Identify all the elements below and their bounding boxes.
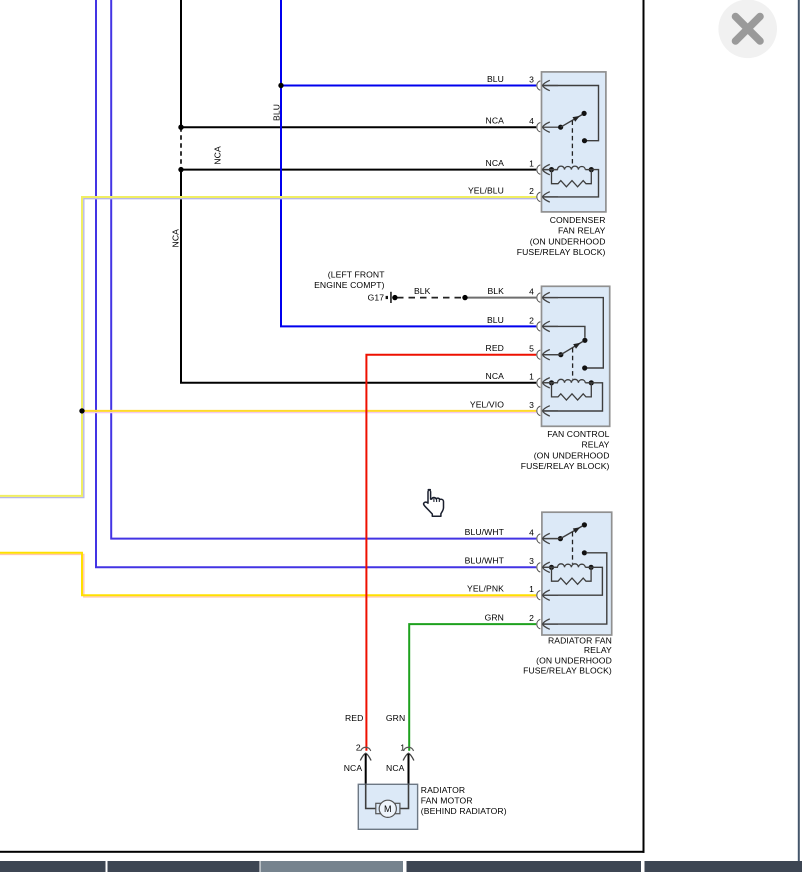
node BLK dash end — [462, 295, 467, 300]
svg-text:BLU/WHT: BLU/WHT — [465, 556, 505, 566]
svg-text:YEL/PNK: YEL/PNK — [467, 584, 504, 594]
radiator relay coil L — [543, 564, 594, 570]
wire NCA main vertical trunk — [180, 0, 182, 127]
wire BLU vertical trunk — [281, 0, 536, 326]
pin 3 connector radiator relay — [537, 562, 558, 572]
label YEL/VIO / pin 3 — [470, 399, 534, 410]
svg-text:NCA: NCA — [212, 146, 222, 165]
svg-text:RADIATOR: RADIATOR — [421, 785, 465, 795]
pin 4 connector fan control relay — [537, 292, 558, 302]
motor pin 2 connector — [360, 747, 371, 768]
condenser fan relay name label — [517, 215, 606, 257]
fan control relay U2 box — [542, 286, 610, 426]
radiator relay NC contact wire to pin 2 — [543, 550, 607, 624]
svg-text:GRN: GRN — [485, 613, 504, 623]
svg-text:3: 3 — [529, 74, 534, 84]
condenser relay pin 2 internal wire — [543, 170, 599, 197]
svg-text:NCA: NCA — [171, 229, 181, 248]
pin 3 connector condenser relay — [537, 80, 558, 90]
svg-text:2: 2 — [356, 742, 361, 752]
svg-text:3: 3 — [529, 556, 534, 566]
condenser relay switch — [558, 111, 587, 130]
svg-text:3: 3 — [529, 400, 534, 410]
motor pin 1 connector — [403, 747, 414, 768]
svg-text:GRN: GRN — [386, 713, 405, 723]
wire YEL/BLU to condenser fan relay pin 2 — [0, 197, 536, 496]
node BLK at ground — [392, 295, 397, 300]
pin 2 connector condenser relay — [537, 192, 558, 202]
fan control relay pin 2 internal wire — [543, 326, 585, 337]
svg-text:(ON UNDERHOOD: (ON UNDERHOOD — [534, 450, 610, 460]
wire NCA to condenser fan relay pin 4 — [181, 126, 536, 128]
fan control relay name label — [521, 429, 610, 471]
pin 1 connector radiator relay — [537, 590, 558, 600]
radiator fan motor M1 box — [358, 784, 417, 829]
condenser relay resistor R (parallel) — [552, 170, 592, 187]
fan control relay pin 4 internal wire — [543, 298, 604, 368]
svg-text:2: 2 — [529, 613, 534, 623]
label YEL/BLU / pin 2 — [468, 185, 534, 196]
diagram border bottom edge — [0, 851, 645, 853]
wire NCA dashed vertical segment — [180, 127, 182, 169]
svg-text:FUSE/RELAY BLOCK): FUSE/RELAY BLOCK) — [517, 247, 606, 257]
pin 5 connector fan control relay — [537, 350, 558, 360]
svg-text:1: 1 — [400, 742, 405, 752]
node NCA junction upper — [178, 125, 183, 130]
svg-text:NCA: NCA — [344, 763, 363, 773]
radiator fan motor name label — [421, 785, 507, 816]
svg-text:BLU: BLU — [487, 74, 504, 84]
fan control relay NC contact dot — [582, 365, 587, 370]
pin 1 connector fan control relay — [537, 378, 558, 388]
svg-text:NCA: NCA — [386, 763, 405, 773]
svg-text:2: 2 — [529, 315, 534, 325]
motor internal wires — [366, 784, 409, 808]
wire YEL/VIO tracer stripe — [82, 412, 536, 414]
svg-text:4: 4 — [529, 287, 534, 297]
taskbar background — [0, 861, 802, 872]
radiator fan relay U3 box — [542, 512, 612, 635]
wire NCA stub into motor pin 1 — [408, 754, 410, 784]
svg-text:RELAY: RELAY — [584, 645, 612, 655]
svg-text:BLU: BLU — [487, 315, 504, 325]
taskbar segment 2 — [108, 861, 260, 872]
svg-text:RED: RED — [486, 343, 504, 353]
fan control relay dashed actuator link — [572, 348, 574, 379]
pin 2 connector radiator relay — [537, 619, 558, 629]
taskbar segment 5 — [645, 861, 802, 872]
wire BLU/WHT vertical-2 to radiator fan relay pin 4 — [111, 0, 536, 539]
label RED / pin 5 — [486, 343, 535, 354]
label NCA / pin 4 — [486, 116, 535, 127]
radiator relay pin 1 internal wire — [543, 567, 603, 595]
svg-text:NCA: NCA — [486, 371, 505, 381]
svg-text:5: 5 — [529, 344, 534, 354]
fan control relay switch — [558, 338, 587, 358]
wire YEL/BLU tracer stripe — [0, 199, 536, 498]
label BLU / pin 3 — [487, 74, 534, 85]
svg-text:FAN MOTOR: FAN MOTOR — [421, 796, 473, 806]
ground G17 symbol — [386, 292, 392, 303]
radiator relay dashed actuator link — [572, 532, 574, 564]
svg-text:BLU: BLU — [271, 104, 281, 121]
taskbar segment 4 — [407, 861, 642, 872]
fan control relay coil L — [543, 379, 594, 385]
condenser relay NC contact wire + dot — [582, 138, 587, 143]
svg-text:RED: RED — [345, 713, 363, 723]
node YEL junction — [79, 408, 84, 413]
label BLU/WHT / pin 4 — [465, 527, 534, 538]
svg-text:2: 2 — [529, 186, 534, 196]
close button — [718, 0, 777, 58]
svg-text:(LEFT FRONT: (LEFT FRONT — [328, 269, 385, 279]
svg-text:(ON UNDERHOOD: (ON UNDERHOOD — [530, 237, 606, 247]
fan control relay pin 5 internal wire — [543, 354, 561, 356]
svg-text:CONDENSER: CONDENSER — [550, 215, 606, 225]
fan control relay pin 3 internal wire — [543, 383, 603, 411]
wire YEL/VIO to fan control relay pin 3 — [82, 410, 536, 412]
label BLK / pin 4 — [487, 286, 534, 297]
condenser relay dashed actuator link — [571, 121, 573, 167]
wire RED from fan control relay pin 5 to motor — [366, 355, 536, 751]
ground G17 labels — [314, 269, 385, 302]
wire NCA vertical to fan control relay pin 1 — [181, 170, 536, 383]
motor M1 symbol — [376, 800, 400, 817]
wire NCA to condenser fan relay pin 1 — [181, 169, 536, 171]
pin 4 connector condenser relay — [537, 122, 558, 132]
condenser fan relay U1 box — [542, 72, 606, 212]
diagram border right edge — [643, 0, 645, 853]
node NCA junction lower — [178, 167, 183, 172]
svg-text:ENGINE COMPT): ENGINE COMPT) — [314, 280, 385, 290]
pin 4 connector radiator relay — [537, 533, 558, 543]
svg-text:RELAY: RELAY — [581, 440, 609, 450]
right edge scrollbar line — [798, 0, 800, 861]
pin 3 connector fan control relay — [537, 406, 558, 416]
pin 1 connector condenser relay — [537, 164, 558, 174]
svg-text:1: 1 — [529, 159, 534, 169]
svg-text:NCA: NCA — [486, 158, 505, 168]
svg-text:RADIATOR FAN: RADIATOR FAN — [548, 635, 612, 645]
taskbar segment 1 — [0, 861, 106, 872]
radiator relay resistor R (parallel) — [552, 567, 592, 584]
wire BLU to condenser fan relay pin 3 — [281, 85, 536, 87]
svg-text:4: 4 — [529, 116, 534, 126]
label BLU / pin 2 — [487, 315, 534, 326]
pin 2 connector fan control relay — [537, 321, 558, 331]
svg-text:FUSE/RELAY BLOCK): FUSE/RELAY BLOCK) — [523, 666, 612, 676]
svg-text:FAN CONTROL: FAN CONTROL — [547, 429, 609, 439]
svg-text:4: 4 — [529, 528, 534, 538]
wire BLU/WHT vertical-1 to radiator fan relay pin 3 — [96, 0, 536, 567]
wire NCA stub into motor pin 2 — [365, 754, 367, 784]
condenser relay coil L — [543, 166, 594, 172]
svg-text:BLU/WHT: BLU/WHT — [465, 527, 505, 537]
wire YEL/PNK tracer stripe — [0, 554, 536, 597]
wire YEL/PNK to radiator fan relay pin 1 — [0, 553, 536, 596]
cursor hand — [424, 490, 444, 517]
label NCA / pin 1 — [486, 158, 535, 169]
svg-text:NCA: NCA — [486, 116, 505, 126]
svg-text:(ON UNDERHOOD: (ON UNDERHOOD — [536, 656, 612, 666]
condenser relay pin 3 internal wire — [543, 86, 599, 141]
label NCA / pin 1 — [486, 371, 535, 382]
svg-text:BLK: BLK — [487, 286, 504, 296]
radiator relay switch — [543, 522, 587, 541]
radiator fan relay name label — [523, 635, 612, 675]
svg-text:BLK: BLK — [414, 286, 431, 296]
svg-text:M: M — [384, 804, 392, 814]
fan control relay resistor R (parallel) — [552, 383, 592, 400]
svg-text:FAN RELAY: FAN RELAY — [558, 226, 606, 236]
wire BLK to fan control relay pin 4 — [465, 297, 536, 299]
svg-text:YEL/BLU: YEL/BLU — [468, 185, 504, 195]
svg-text:FUSE/RELAY BLOCK): FUSE/RELAY BLOCK) — [521, 461, 610, 471]
svg-text:(BEHIND RADIATOR): (BEHIND RADIATOR) — [421, 806, 507, 816]
svg-text:1: 1 — [529, 584, 534, 594]
wire BLK dashed to ground G17 — [397, 297, 465, 299]
taskbar segment 3 (active) — [261, 861, 404, 872]
label BLU/WHT / pin 3 — [465, 556, 534, 567]
wire GRN from radiator fan relay pin 2 to motor — [409, 624, 536, 751]
node BLU junction — [278, 83, 283, 88]
label GRN / pin 2 — [485, 613, 535, 624]
svg-text:1: 1 — [529, 372, 534, 382]
svg-text:G17: G17 — [368, 292, 385, 302]
label YEL/PNK / pin 1 — [467, 584, 534, 595]
svg-text:YEL/VIO: YEL/VIO — [470, 399, 504, 409]
